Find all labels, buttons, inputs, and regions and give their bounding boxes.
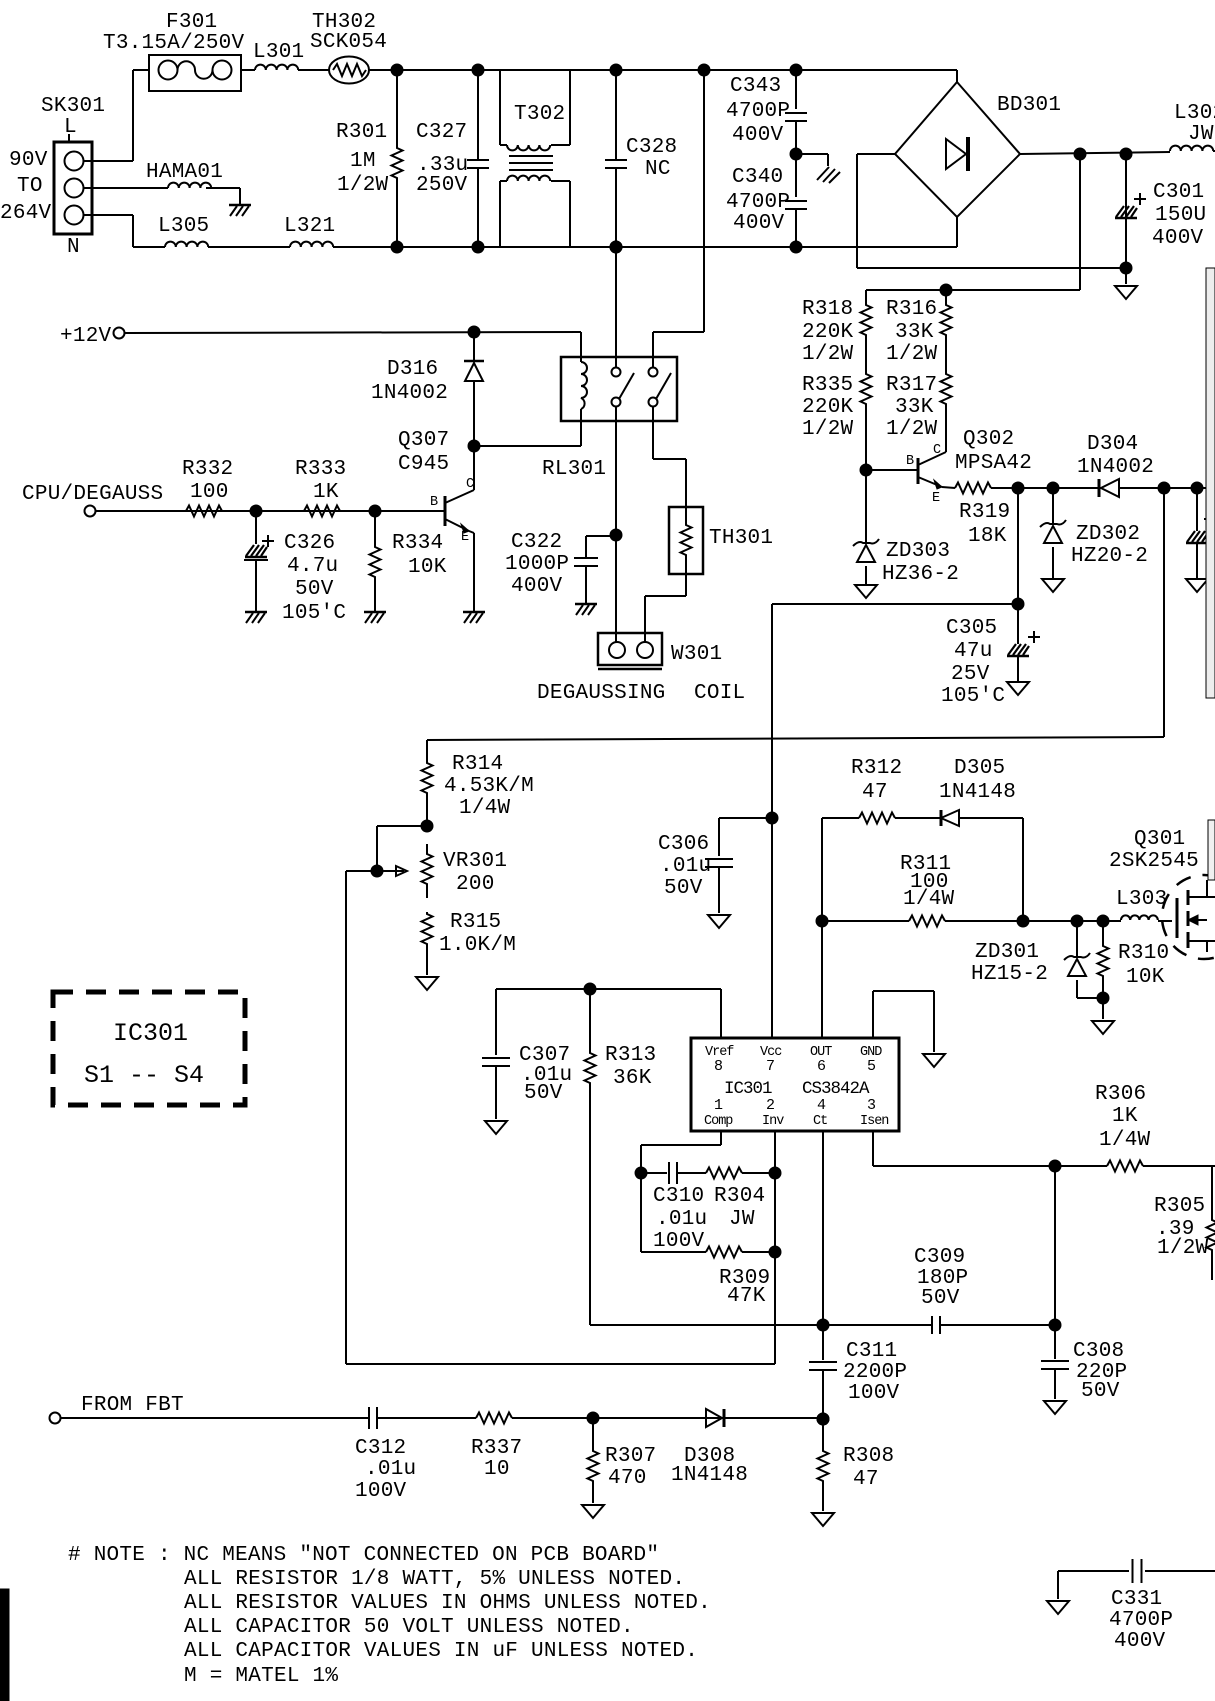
svg-text:1/4W: 1/4W	[903, 888, 955, 911]
svg-text:1: 1	[714, 1097, 723, 1114]
svg-text:D316: D316	[387, 358, 438, 381]
svg-text:C312: C312	[355, 1437, 406, 1460]
svg-text:D304: D304	[1087, 433, 1138, 456]
svg-text:L305: L305	[158, 215, 209, 238]
svg-text:Q302: Q302	[963, 428, 1014, 451]
svg-text:1/2W: 1/2W	[886, 418, 938, 441]
svg-text:.01u: .01u	[365, 1458, 416, 1481]
svg-text:N: N	[67, 236, 80, 259]
svg-text:1/4W: 1/4W	[459, 797, 511, 820]
svg-text:25V: 25V	[951, 663, 990, 686]
svg-text:T3.15A/250V: T3.15A/250V	[103, 32, 245, 55]
svg-text:200: 200	[456, 873, 495, 896]
svg-text:50V: 50V	[921, 1287, 960, 1310]
svg-text:470: 470	[608, 1467, 647, 1490]
svg-text:105'C: 105'C	[941, 685, 1005, 708]
svg-text:CPU/DEGAUSS: CPU/DEGAUSS	[22, 483, 163, 506]
svg-text:10K: 10K	[408, 556, 447, 579]
svg-text:M = MATEL 1%: M = MATEL 1%	[184, 1665, 338, 1688]
svg-text:50V: 50V	[664, 877, 703, 900]
svg-text:R337: R337	[471, 1437, 522, 1460]
svg-text:E: E	[461, 530, 469, 545]
svg-text:8: 8	[714, 1058, 723, 1075]
svg-text:S1 -- S4: S1 -- S4	[84, 1061, 204, 1090]
svg-text:CS3842A: CS3842A	[802, 1079, 870, 1099]
svg-text:C301: C301	[1153, 181, 1204, 204]
svg-text:R319: R319	[959, 501, 1010, 524]
svg-text:R333: R333	[295, 458, 346, 481]
svg-text:R304: R304	[714, 1185, 765, 1208]
svg-text:C306: C306	[658, 833, 709, 856]
svg-text:400V: 400V	[1114, 1630, 1166, 1653]
svg-text:6: 6	[817, 1058, 826, 1075]
svg-text:L302: L302	[1174, 102, 1215, 125]
svg-text:R307: R307	[605, 1445, 656, 1468]
svg-text:50V: 50V	[524, 1082, 563, 1105]
svg-text:5: 5	[867, 1058, 876, 1075]
svg-text:1N4148: 1N4148	[939, 781, 1016, 804]
svg-text:DEGAUSSING: DEGAUSSING	[537, 682, 666, 705]
svg-text:33K: 33K	[895, 321, 934, 344]
svg-text:E: E	[932, 491, 940, 506]
svg-text:B: B	[906, 454, 914, 469]
svg-text:47K: 47K	[727, 1285, 766, 1308]
svg-text:50V: 50V	[1081, 1380, 1120, 1403]
svg-text:ALL RESISTOR 1/8 WATT, 5% UNLE: ALL RESISTOR 1/8 WATT, 5% UNLESS NOTED.	[184, 1568, 685, 1591]
svg-text:VR301: VR301	[443, 850, 507, 873]
svg-text:1K: 1K	[1112, 1105, 1138, 1128]
svg-text:L: L	[64, 116, 77, 139]
svg-text:ALL RESISTOR VALUES IN OHMS UN: ALL RESISTOR VALUES IN OHMS UNLESS NOTED…	[184, 1592, 711, 1615]
svg-text:1.0K/M: 1.0K/M	[439, 934, 516, 957]
svg-text:C311: C311	[846, 1340, 897, 1363]
svg-text:SCK054: SCK054	[310, 31, 387, 54]
svg-text:10K: 10K	[1126, 966, 1165, 989]
svg-text:2200P: 2200P	[843, 1361, 907, 1384]
svg-text:10: 10	[484, 1458, 510, 1481]
svg-text:C945: C945	[398, 453, 449, 476]
svg-text:400V: 400V	[1152, 227, 1204, 250]
svg-text:F301: F301	[166, 11, 217, 34]
svg-text:# NOTE : NC MEANS "NOT CONNECT: # NOTE : NC MEANS "NOT CONNECTED ON PCB …	[68, 1544, 659, 1567]
svg-text:ZD303: ZD303	[886, 540, 950, 563]
svg-text:C310: C310	[653, 1185, 704, 1208]
svg-text:C331: C331	[1111, 1588, 1162, 1611]
svg-text:C: C	[933, 443, 941, 458]
svg-text:W301: W301	[671, 643, 722, 666]
svg-text:4700P: 4700P	[726, 191, 790, 214]
svg-text:R314: R314	[452, 753, 503, 776]
svg-text:Comp: Comp	[704, 1114, 733, 1129]
svg-text:400V: 400V	[732, 124, 784, 147]
svg-text:1/2W: 1/2W	[802, 418, 854, 441]
svg-text:1N4002: 1N4002	[371, 382, 448, 405]
svg-text:1/4W: 1/4W	[1099, 1129, 1151, 1152]
svg-text:R316: R316	[886, 298, 937, 321]
svg-text:C326: C326	[284, 532, 335, 555]
svg-text:1N4002: 1N4002	[1077, 456, 1154, 479]
svg-text:.01u: .01u	[656, 1208, 707, 1231]
svg-text:100: 100	[190, 481, 229, 504]
svg-text:4.53K/M: 4.53K/M	[444, 775, 534, 798]
svg-text:4.7u: 4.7u	[287, 555, 338, 578]
svg-text:R317: R317	[886, 374, 937, 397]
svg-text:IC301: IC301	[113, 1019, 188, 1048]
svg-text:ZD302: ZD302	[1076, 523, 1140, 546]
svg-text:50V: 50V	[295, 578, 334, 601]
svg-text:HZ36-2: HZ36-2	[882, 563, 959, 586]
svg-text:R315: R315	[450, 911, 501, 934]
svg-text:C308: C308	[1073, 1340, 1124, 1363]
svg-text:Q307: Q307	[398, 429, 449, 452]
svg-text:4: 4	[817, 1097, 826, 1114]
svg-text:BD301: BD301	[997, 94, 1061, 117]
svg-text:Inv: Inv	[762, 1114, 784, 1129]
svg-text:TO: TO	[17, 175, 43, 198]
svg-text:1000P: 1000P	[505, 553, 569, 576]
svg-text:Ct: Ct	[813, 1114, 827, 1129]
svg-text:400V: 400V	[733, 212, 785, 235]
svg-text:C309: C309	[914, 1246, 965, 1269]
svg-text:47: 47	[853, 1468, 879, 1491]
svg-text:47: 47	[862, 781, 888, 804]
svg-text:R305: R305	[1154, 1195, 1205, 1218]
svg-text:R312: R312	[851, 757, 902, 780]
svg-text:.01u: .01u	[660, 855, 711, 878]
svg-text:ALL CAPACITOR VALUES IN uF UNL: ALL CAPACITOR VALUES IN uF UNLESS NOTED.	[184, 1640, 698, 1663]
svg-text:ZD301: ZD301	[975, 941, 1039, 964]
svg-text:18K: 18K	[968, 525, 1007, 548]
svg-text:COIL: COIL	[694, 682, 745, 705]
svg-text:1M: 1M	[350, 150, 376, 173]
svg-text:2SK2545: 2SK2545	[1109, 850, 1199, 873]
svg-text:FROM FBT: FROM FBT	[81, 1394, 184, 1417]
svg-text:IC301: IC301	[724, 1079, 772, 1099]
svg-text:L301: L301	[253, 41, 304, 64]
svg-text:HZ15-2: HZ15-2	[971, 963, 1048, 986]
svg-text:C328: C328	[626, 136, 677, 159]
svg-text:R335: R335	[802, 374, 853, 397]
svg-text:220K: 220K	[802, 396, 854, 419]
svg-text:4700P: 4700P	[1109, 1609, 1173, 1632]
svg-text:7: 7	[766, 1058, 775, 1075]
svg-text:4700P: 4700P	[726, 100, 790, 123]
svg-text:150U: 150U	[1155, 204, 1206, 227]
svg-text:+12V: +12V	[60, 325, 112, 348]
svg-text:R313: R313	[605, 1044, 656, 1067]
svg-text:C322: C322	[511, 531, 562, 554]
svg-text:36K: 36K	[613, 1067, 652, 1090]
svg-text:1/2W: 1/2W	[1157, 1237, 1209, 1260]
svg-text:R306: R306	[1095, 1083, 1146, 1106]
svg-text:R332: R332	[182, 458, 233, 481]
svg-text:220K: 220K	[802, 321, 854, 344]
svg-text:100V: 100V	[355, 1480, 407, 1503]
svg-text:RL301: RL301	[542, 458, 606, 481]
svg-text:2: 2	[766, 1097, 775, 1114]
svg-text:Q301: Q301	[1134, 828, 1185, 851]
svg-text:HAMA01: HAMA01	[146, 161, 223, 184]
svg-text:R334: R334	[392, 532, 443, 555]
svg-text:D305: D305	[954, 757, 1005, 780]
svg-text:B: B	[430, 495, 438, 510]
svg-text:1K: 1K	[313, 481, 339, 504]
svg-text:3: 3	[867, 1097, 876, 1114]
svg-text:MPSA42: MPSA42	[955, 452, 1032, 475]
svg-text:L303: L303	[1116, 888, 1167, 911]
svg-text:R318: R318	[802, 298, 853, 321]
svg-text:250V: 250V	[416, 174, 468, 197]
svg-text:C343: C343	[730, 75, 781, 98]
svg-text:33K: 33K	[895, 396, 934, 419]
svg-text:T302: T302	[514, 103, 565, 126]
svg-text:400V: 400V	[511, 575, 563, 598]
svg-text:47u: 47u	[954, 640, 993, 663]
svg-text:C340: C340	[732, 166, 783, 189]
svg-text:L321: L321	[284, 215, 335, 238]
svg-text:R308: R308	[843, 1445, 894, 1468]
svg-text:TH301: TH301	[709, 527, 773, 550]
svg-text:ALL CAPACITOR 50 VOLT UNLESS N: ALL CAPACITOR 50 VOLT UNLESS NOTED.	[184, 1616, 634, 1639]
svg-text:90V: 90V	[9, 149, 48, 172]
svg-text:HZ20-2: HZ20-2	[1071, 545, 1148, 568]
svg-text:264V: 264V	[0, 202, 52, 225]
svg-text:100V: 100V	[653, 1230, 705, 1253]
svg-text:NC: NC	[645, 158, 671, 181]
svg-text:1/2W: 1/2W	[337, 174, 389, 197]
svg-text:JW: JW	[729, 1208, 755, 1231]
svg-text:C327: C327	[416, 121, 467, 144]
svg-text:C: C	[466, 477, 474, 492]
svg-text:SK301: SK301	[41, 95, 105, 118]
svg-text:1/2W: 1/2W	[886, 343, 938, 366]
svg-text:C305: C305	[946, 617, 997, 640]
svg-text:R301: R301	[336, 121, 387, 144]
svg-text:1/2W: 1/2W	[802, 343, 854, 366]
svg-text:JW: JW	[1188, 123, 1214, 146]
svg-text:R310: R310	[1118, 942, 1169, 965]
svg-text:Isen: Isen	[860, 1114, 888, 1129]
svg-text:105'C: 105'C	[282, 602, 346, 625]
svg-text:100V: 100V	[848, 1382, 900, 1405]
svg-text:1N4148: 1N4148	[671, 1464, 748, 1487]
